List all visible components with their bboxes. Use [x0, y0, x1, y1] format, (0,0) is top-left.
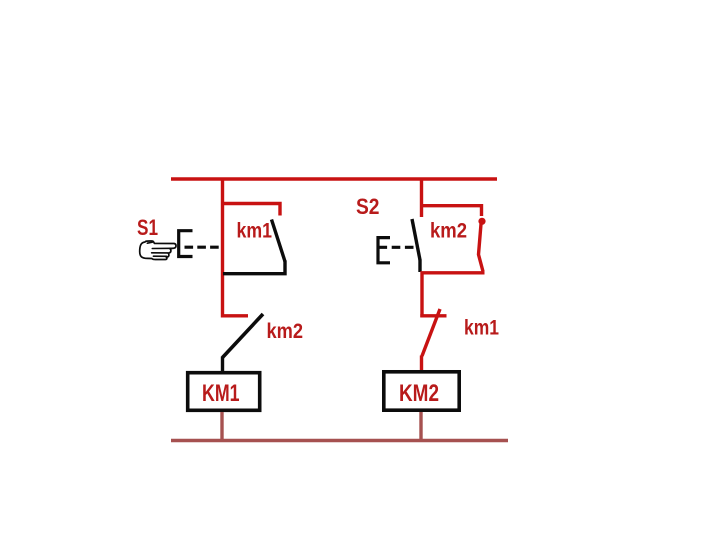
contact km2 (NO, black arm, left branch)	[223, 314, 264, 358]
wire KM1 coil to bottom rail	[220, 412, 223, 440]
wire right branch lower horizontal terminal	[420, 314, 446, 317]
wire KM2 coil to bottom rail	[419, 412, 422, 440]
node dot on km2 contact	[478, 218, 485, 225]
contact km2 (closed red arm, right branch)	[479, 224, 484, 272]
svg-text:km1: km1	[237, 219, 273, 243]
coil KM2 box	[384, 372, 459, 410]
svg-text:km2: km2	[267, 319, 304, 343]
svg-text:KM1: KM1	[202, 380, 240, 407]
contact km1 (NO red arm, right branch)	[422, 309, 440, 356]
pushbutton S2 linkage (dashed)	[379, 246, 415, 249]
svg-text:km1: km1	[464, 316, 499, 340]
wire top supply rail L1	[171, 177, 497, 180]
wire arm lower terminal (black)	[418, 260, 421, 273]
wire right branch mid section	[422, 273, 485, 317]
wire bottom return rail N	[171, 439, 508, 442]
contact km1 (NC, black arm)	[272, 220, 286, 262]
pushbutton S1 actuator bracket	[179, 231, 193, 257]
svg-text:KM2: KM2	[399, 380, 439, 407]
wire left branch drop from rail	[223, 178, 249, 316]
wire km1 contact upper branch	[223, 204, 281, 216]
wire km2 contact upper branch (right)	[422, 206, 482, 216]
wire arm to KM1 coil	[221, 357, 224, 372]
wire arm to KM2 coil	[420, 356, 423, 372]
wire right branch drop from rail	[420, 178, 423, 218]
coil KM1 box	[188, 373, 260, 411]
pushbutton S1 linkage (dashed)	[185, 246, 222, 249]
svg-text:S2: S2	[356, 194, 380, 219]
pointing hand icon	[140, 241, 176, 260]
contact S2 (NO black arm)	[412, 219, 420, 260]
svg-text:S1: S1	[137, 215, 158, 240]
svg-text:km2: km2	[430, 219, 467, 243]
pushbutton S2 actuator bracket	[378, 238, 390, 263]
